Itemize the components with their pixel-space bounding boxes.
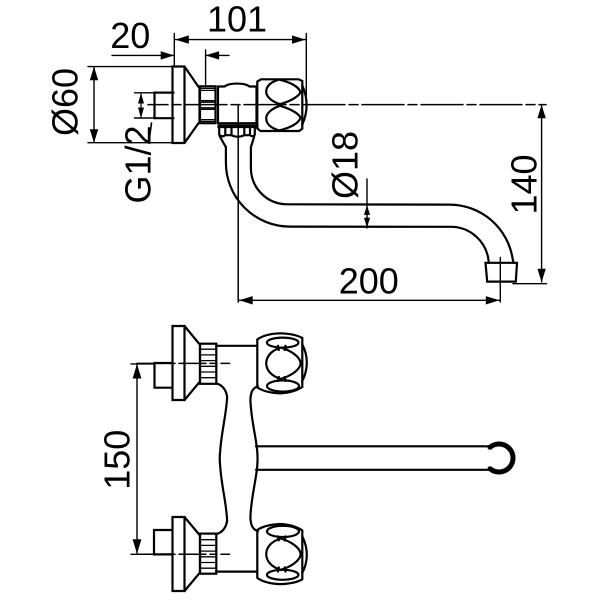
- threaded nipple (side view): [200, 86, 216, 123]
- dimension 20 line: [112, 54, 174, 56]
- svg-text:140: 140: [503, 154, 544, 214]
- label Ø18: [324, 131, 365, 199]
- bottom body bar: [216, 570, 257, 572]
- 150 extension lines: [131, 363, 155, 365]
- spout tube end cap: [490, 444, 513, 472]
- bottom handle upper ellipse: [267, 526, 299, 537]
- label G1/2: [118, 125, 159, 203]
- top body bar: [216, 345, 257, 347]
- spout S-tube (side view): [226, 147, 489, 263]
- handle lower lens: [266, 106, 300, 131]
- svg-text:101: 101: [207, 0, 267, 40]
- handle end cap arc: [302, 86, 306, 125]
- top supply stub: [155, 363, 173, 388]
- label 20: [110, 15, 150, 56]
- bottom handle end cap arc: [302, 536, 307, 573]
- 140 bottom extension line: [513, 283, 547, 285]
- spout tube (top view): [256, 445, 493, 447]
- svg-text:20: 20: [110, 15, 150, 56]
- spout axis extension line (200 left): [237, 105, 239, 302]
- handle upper lens: [266, 80, 300, 105]
- label 150: [96, 430, 137, 490]
- dimension 150: [136, 365, 138, 553]
- top handle upper ellipse: [267, 338, 299, 348]
- top handle lower ellipse: [267, 380, 299, 391]
- aerator tip (side view): [486, 263, 518, 282]
- svg-text:Ø60: Ø60: [45, 68, 86, 136]
- top handle neck lines: [278, 346, 286, 381]
- top handle end cap arc: [302, 345, 307, 382]
- valve body (side view): [218, 84, 257, 124]
- dimension Ø18: [366, 179, 368, 228]
- top assembly centerline: [137, 362, 230, 364]
- centerline of faucet body (side view): [148, 104, 546, 106]
- top threaded nipple: [200, 344, 216, 384]
- bottom handle (top view): [257, 524, 302, 584]
- barrel body right edge: [250, 386, 258, 531]
- 200 right extension line: [499, 258, 501, 303]
- bottom handle middle lens: [266, 539, 301, 570]
- label 101: [207, 0, 267, 40]
- spout union nut scalloped body: [219, 127, 255, 137]
- svg-text:G1/2: G1/2: [118, 125, 159, 203]
- label 140: [503, 154, 544, 214]
- top wall plate: [173, 326, 185, 400]
- dimension Ø60: [88, 66, 173, 68]
- bottom wall plate: [173, 517, 185, 591]
- G1/2 leader line: [149, 123, 152, 143]
- svg-text:Ø18: Ø18: [324, 131, 365, 199]
- bottom handle neck lines: [278, 536, 286, 571]
- spout union nut (side view): [219, 125, 258, 127]
- svg-text:150: 150: [96, 430, 137, 490]
- top handle middle lens: [266, 348, 301, 379]
- spout cone below nut: [220, 137, 254, 148]
- bottom supply stub: [154, 530, 173, 554]
- label 200: [339, 260, 399, 301]
- label Ø60: [45, 68, 86, 136]
- dimension 101 line: [175, 39, 305, 41]
- bottom flange cone: [185, 517, 201, 591]
- wall flange escutcheon (side view): [173, 67, 200, 144]
- barrel body left edge: [216, 383, 227, 534]
- wall supply stub (side view): [155, 93, 174, 119]
- stub double arrow: [140, 94, 142, 117]
- top handle (top view): [257, 333, 302, 393]
- 101 extension lines: [173, 34, 175, 67]
- top flange cone: [185, 326, 201, 400]
- handle (side view): [257, 79, 302, 131]
- bottom threaded nipple: [200, 534, 216, 574]
- dimension 140: [541, 105, 543, 282]
- bottom handle lower ellipse: [267, 570, 299, 580]
- stub extension lines (G1/2 size): [135, 92, 155, 94]
- dimension 200: [239, 299, 499, 301]
- svg-text:200: 200: [339, 260, 399, 301]
- 20 right extension line: [205, 50, 207, 87]
- bottom assembly centerline: [137, 553, 230, 555]
